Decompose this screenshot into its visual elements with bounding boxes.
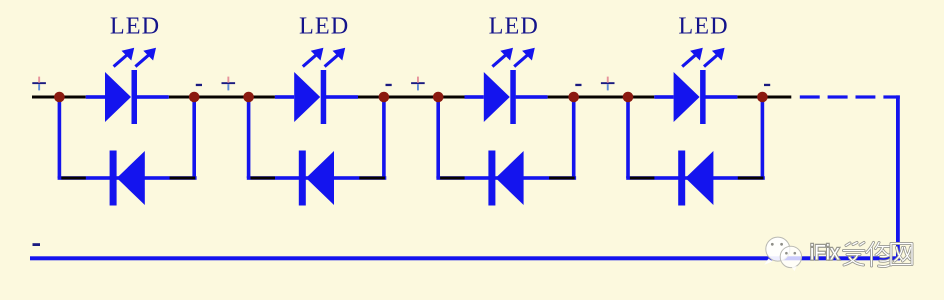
wire: bottom loop cell 3 — [436, 176, 576, 180]
wire: LED1 cathode stub — [137, 95, 169, 99]
wire: top bus black segment 4 — [548, 96, 655, 99]
wire: LED2 cathode stub — [326, 95, 358, 99]
wire: bottom loop black segment left cell 3 — [440, 177, 465, 180]
LED D1 symbol (triangle + cathode bar) — [105, 70, 137, 124]
LED D3 light-emission arrows — [492, 48, 534, 67]
svg-text:LED: LED — [678, 13, 728, 40]
wire: right vertical return — [896, 95, 900, 260]
node: cell 2 anode junction (+) — [243, 92, 254, 103]
label "-" right of LED4 — [764, 84, 770, 86]
watermark logo (chat bubbles) — [764, 237, 801, 271]
wire: right drop cell 1 — [192, 97, 196, 178]
wire: bottom loop black segment right cell 4 — [738, 177, 764, 180]
wire: LED2 anode stub — [275, 95, 294, 99]
wire: bottom loop cell 2 — [247, 176, 386, 180]
wire: left drop cell 2 — [247, 97, 251, 178]
wire: top bus black segment 3 — [358, 96, 465, 99]
LED D2 symbol (triangle + cathode bar) — [294, 70, 326, 124]
wire: bottom loop black segment left cell 4 — [630, 177, 655, 180]
svg-text:iFix: iFix — [810, 241, 840, 264]
protection diode DP4 (anti-parallel) — [678, 151, 713, 206]
wire: LED1 anode stub — [86, 95, 105, 99]
LED D3 symbol (triangle + cathode bar) — [484, 70, 516, 124]
label "-" right of LED3 — [575, 84, 581, 86]
svg-text:LED: LED — [110, 13, 160, 40]
wire: right drop cell 3 — [572, 97, 576, 178]
label "-" right of LED2 — [386, 84, 392, 86]
protection diode DP3 (anti-parallel) — [488, 151, 523, 206]
node: cell 3 cathode junction (-) — [568, 92, 579, 103]
label "-" bottom return — [33, 243, 41, 246]
node: cell 2 cathode junction (-) — [379, 92, 390, 103]
label "-" right of LED1 — [196, 84, 202, 86]
wire: bottom loop black segment left cell 2 — [251, 177, 276, 180]
wire: bottom loop cell 4 — [626, 176, 765, 180]
wire: right drop cell 2 — [382, 97, 386, 178]
wire: bottom loop black segment right cell 1 — [170, 177, 196, 180]
wire: left drop cell 1 — [58, 97, 62, 178]
node: cell 1 cathode junction (-) — [189, 92, 200, 103]
LED D4 light-emission arrows — [682, 48, 724, 67]
protection diode DP2 (anti-parallel) — [299, 151, 334, 206]
label "+" left of LED2 — [222, 77, 236, 91]
watermark text "爱修网" (drawn glyphs) — [844, 243, 913, 267]
wire: left drop cell 4 — [626, 97, 630, 178]
wire: LED4 anode stub — [654, 95, 673, 99]
wire: LED4 cathode stub — [705, 95, 737, 99]
node: cell 4 cathode junction (-) — [757, 92, 768, 103]
wire: bottom loop black segment left cell 1 — [61, 177, 86, 180]
wire: left drop cell 3 — [436, 97, 440, 178]
wire: right drop cell 4 — [761, 97, 765, 178]
LED D1 light-emission arrows — [114, 48, 156, 67]
protection diode DP1 (anti-parallel) — [110, 151, 145, 206]
svg-text:LED: LED — [299, 13, 349, 40]
wire: bottom loop black segment right cell 3 — [549, 177, 575, 180]
label "+" left of LED3 — [411, 77, 425, 91]
node: cell 4 anode junction (+) — [623, 92, 634, 103]
wire: top bus black segment 5 — [737, 96, 791, 99]
label "+" left of LED1 — [32, 77, 46, 91]
wire: top bus black segment 2 — [169, 96, 275, 99]
LED D2 light-emission arrows — [303, 48, 345, 67]
wire: bottom return bus — [30, 256, 900, 260]
svg-text:LED: LED — [489, 13, 539, 40]
wire: dashed continuation segments — [800, 95, 900, 98]
node: cell 3 anode junction (+) — [433, 92, 444, 103]
LED D4 symbol (triangle + cathode bar) — [674, 70, 706, 124]
wire: bottom loop cell 1 — [58, 176, 197, 180]
wire: LED3 cathode stub — [516, 95, 548, 99]
label "+" left of LED4 — [601, 77, 615, 91]
wire: LED3 anode stub — [465, 95, 484, 99]
node: cell 1 anode junction (+) — [54, 92, 65, 103]
wire: bottom loop black segment right cell 2 — [359, 177, 385, 180]
wire: top bus black segment 1 — [32, 96, 86, 99]
